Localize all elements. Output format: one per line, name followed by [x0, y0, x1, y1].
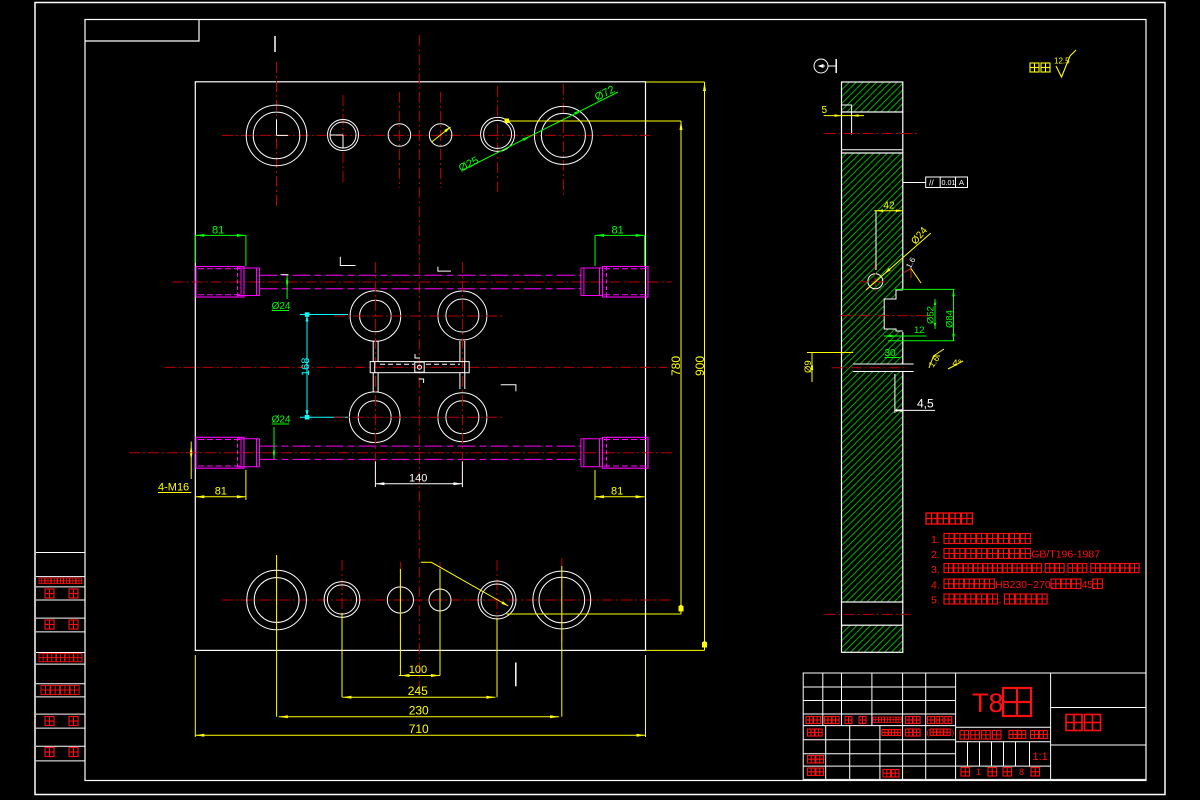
dim 42 line	[874, 210, 903, 212]
svg-text:140: 140	[409, 473, 427, 485]
svg-text:81: 81	[215, 486, 227, 498]
svg-text:5: 5	[822, 105, 828, 116]
dim line 900	[704, 82, 706, 650]
dim line 245	[343, 696, 496, 698]
section mark above plate	[274, 36, 276, 52]
hole B6 large	[533, 571, 591, 629]
hole A2 threaded	[328, 120, 359, 151]
upper guide pillar assembly	[196, 267, 244, 298]
svg-text:2.: 2.	[931, 549, 940, 561]
svg-text:.: .	[1065, 564, 1068, 576]
svg-text:HB230~270,: HB230~270,	[995, 579, 1054, 591]
pocket outline	[884, 290, 903, 331]
hole B1 large	[247, 570, 307, 630]
tb label biaozhunhua	[882, 730, 888, 736]
erase right edge at sprue slot	[902, 365, 904, 371]
svg-text:81: 81	[612, 225, 624, 237]
ext lines 4.5	[894, 374, 896, 413]
ext lines 81 top-right	[594, 235, 596, 266]
svg-text:900: 900	[693, 356, 707, 376]
left table label miao-tu	[45, 589, 54, 598]
section centerline top row	[825, 133, 920, 135]
hole A5 stepped	[481, 117, 515, 151]
dim 5 line	[824, 115, 864, 117]
sprue slot lines	[853, 363, 913, 365]
svg-text:230: 230	[409, 703, 429, 717]
left table label ri-qi	[45, 748, 54, 757]
left table label miao-jiao	[45, 620, 54, 629]
tb label fenqu	[845, 717, 852, 724]
dim line 710	[195, 734, 645, 736]
plate horizontal centerline	[165, 366, 668, 368]
dim 42 ext line	[875, 211, 877, 270]
ext line 900 bottom	[646, 649, 705, 651]
ext line 900 top	[646, 81, 705, 83]
top row hole centerline	[562, 84, 564, 198]
svg-text:Ø84: Ø84	[945, 310, 956, 328]
finish mark 1.6 white	[903, 269, 911, 279]
ext line 780 top	[507, 120, 681, 122]
sprue square	[415, 362, 424, 372]
svg-text:(: (	[927, 729, 930, 738]
tb sheets	[961, 768, 970, 777]
cavity circle BR	[438, 393, 487, 442]
svg-text:.: .	[1088, 564, 1091, 576]
ext lines 168	[300, 314, 348, 316]
left table label ditu-zonghao	[41, 686, 50, 695]
cavity centerline vertical left	[374, 262, 376, 478]
arrowhead on A6 right	[574, 110, 583, 115]
break mark below sprue	[419, 379, 424, 383]
sprue slot black region	[853, 365, 903, 371]
dim 4.5	[895, 409, 935, 411]
svg-text:.: .	[1042, 564, 1045, 576]
hole B5	[478, 581, 516, 619]
tb part name xingqiang	[1066, 715, 1082, 731]
dim line 230	[279, 716, 559, 718]
ext line 81 bottom-right	[594, 470, 596, 500]
svg-text:A: A	[959, 178, 964, 187]
lower guide bar centerline	[129, 452, 672, 454]
svg-text:12: 12	[914, 325, 925, 336]
svg-text:4-M16: 4-M16	[158, 482, 189, 494]
dim O52	[934, 299, 936, 329]
hole A6 large	[534, 106, 592, 164]
top row hole centerline	[276, 62, 278, 208]
svg-text:Ø52: Ø52	[926, 306, 937, 324]
leader 4-M16	[190, 442, 192, 480]
upper guide bar centerline	[173, 281, 672, 283]
top hole row centerline	[222, 134, 650, 136]
bottom row hole centerline	[561, 558, 563, 642]
plate outline rectangle	[195, 82, 645, 651]
hole B3 small	[387, 587, 413, 613]
svg-text:Ø9: Ø9	[803, 360, 814, 373]
svg-text:,: ,	[999, 594, 1002, 606]
hole A3 small	[388, 124, 411, 147]
runner gate TL	[372, 341, 374, 362]
hole B2	[324, 582, 360, 618]
svg-text:): )	[952, 729, 955, 738]
tolerance frame box	[926, 177, 968, 188]
dim line 81 top-left	[195, 234, 246, 236]
section main block hatched	[842, 153, 903, 602]
tb label qianming	[906, 717, 913, 724]
bottom row hole centerline	[399, 562, 401, 638]
hole A4 small	[429, 124, 452, 147]
cavity circle BL	[349, 392, 400, 443]
top row hole centerline	[440, 92, 442, 188]
dim O9	[811, 352, 813, 382]
ext lines 81 bottom-left	[194, 655, 196, 737]
ext line col B3	[399, 569, 401, 676]
title block grid	[803, 673, 1146, 779]
svg-text:710: 710	[409, 722, 429, 736]
top row hole centerline	[342, 95, 344, 185]
dim O84	[895, 288, 955, 290]
ext line col B4	[439, 569, 441, 676]
break mark above sprue	[415, 354, 420, 358]
dim O24 upper	[286, 274, 288, 299]
tb label gongyi	[808, 768, 816, 776]
svg-text:81: 81	[212, 225, 224, 237]
svg-text:8: 8	[1019, 767, 1024, 777]
svg-text:100: 100	[409, 664, 427, 676]
tb label qianming2	[906, 729, 913, 736]
erase right edge at pocket mouth	[902, 289, 904, 332]
dim line 81 bottom-right	[595, 496, 645, 498]
section top block hatched	[842, 82, 903, 112]
section side edges through gaps	[841, 112, 843, 153]
svg-text:81: 81	[611, 486, 623, 498]
hole B4 small	[429, 589, 451, 611]
hole A1 large threaded	[246, 105, 307, 166]
dim line 140	[375, 483, 462, 485]
tb label biaoji	[806, 717, 813, 724]
top-left binding notch	[85, 20, 199, 41]
svg-text:45: 45	[1082, 579, 1094, 591]
tb label jieduanbiaoji	[960, 731, 969, 740]
section centerline bottom row	[825, 613, 911, 615]
cross hole centerlines	[874, 262, 876, 295]
dim line 81 top-right	[595, 234, 645, 236]
main runner bar	[370, 362, 469, 373]
bottom row hole centerline	[276, 556, 278, 642]
svg-text:42: 42	[883, 201, 895, 212]
bottom row hole centerline	[439, 562, 441, 638]
chamfer leader bottom yellow	[421, 562, 509, 606]
cavity circle TR	[438, 291, 487, 340]
ext lines 81 top-left	[194, 235, 196, 263]
left margin table grid	[36, 553, 85, 761]
svg-text:5.: 5.	[931, 595, 940, 607]
dim line 168 cyan	[306, 315, 308, 418]
dim line 81 bottom-left	[195, 496, 246, 498]
finish 1.6 yellow	[929, 356, 940, 368]
cavity circle TL	[350, 291, 401, 342]
label qiyu	[1030, 63, 1039, 72]
runner gate TR	[459, 341, 461, 362]
plate vertical centerline	[418, 35, 420, 686]
dim line 780	[680, 121, 682, 614]
sprue centerline red	[832, 367, 908, 369]
pocket centerline red	[840, 315, 935, 317]
ext line plate right bottom	[645, 655, 647, 737]
break mark upper left	[340, 257, 355, 266]
left table label jieyong	[39, 578, 45, 584]
tb label chushu	[825, 717, 832, 724]
hole A4 leader yellow	[432, 127, 451, 142]
cavity centerline horizontal lower	[334, 416, 505, 418]
bottom row hole centerline	[496, 560, 498, 640]
tb material gang	[1003, 688, 1031, 716]
cavity centerline vertical right	[461, 262, 463, 478]
ext line col B5	[496, 618, 498, 697]
runner gate BL	[372, 373, 374, 393]
bottom row hole centerline	[341, 560, 343, 640]
svg-text:245: 245	[408, 684, 428, 698]
cross hole circle	[868, 274, 883, 289]
tb label shenhe	[808, 756, 816, 764]
pocket cut black region	[884, 290, 903, 331]
left table label qian-zi	[45, 717, 54, 726]
break mark upper mid	[438, 267, 451, 271]
tech req title	[926, 513, 937, 524]
left table label jiu-ditu-zonghao	[39, 654, 47, 662]
projection symbol	[814, 59, 828, 73]
parting line pair	[842, 149, 903, 151]
dia leader line O25-O72	[463, 92, 618, 170]
ext lines 140	[374, 462, 376, 488]
tb label zhongliang	[1009, 731, 1017, 739]
break mark lower right	[501, 385, 516, 392]
svg-text://: //	[929, 178, 934, 188]
dim 12	[884, 335, 927, 337]
cavity centerline horizontal upper	[334, 315, 505, 317]
svg-text:1: 1	[976, 767, 981, 777]
top row hole centerline	[398, 92, 400, 188]
tb label nianyueri	[928, 717, 935, 724]
tolerance frame leader	[903, 182, 926, 184]
O24 leader	[866, 233, 931, 290]
svg-text:GB/T196-1987: GB/T196-1987	[1031, 549, 1100, 561]
svg-text:1.: 1.	[931, 534, 940, 546]
dim line 100	[399, 675, 440, 677]
svg-text:0.01: 0.01	[942, 178, 956, 187]
svg-text:T8: T8	[972, 688, 1004, 718]
bottom hole row centerline	[222, 599, 672, 601]
section bottom block hatched	[842, 625, 903, 652]
tb label genggai	[873, 717, 878, 722]
top-left step notch	[842, 105, 852, 112]
top row hole centerline	[497, 86, 499, 192]
ext line col B2	[341, 613, 343, 697]
tb label bili	[1031, 731, 1039, 739]
svg-text:168: 168	[300, 358, 312, 376]
lower guide pillar assembly	[196, 437, 244, 468]
svg-text:4°: 4°	[952, 358, 961, 369]
dim O24 lower	[273, 427, 275, 459]
svg-text:1:1: 1:1	[1033, 751, 1048, 763]
section mark below plate	[515, 663, 517, 687]
tb label sheji	[808, 729, 815, 736]
svg-text:4.: 4.	[931, 580, 940, 592]
ext line col B6	[561, 566, 563, 717]
svg-text:3.: 3.	[931, 564, 940, 576]
svg-text:780: 780	[669, 356, 683, 376]
svg-text:4,5: 4,5	[917, 397, 934, 411]
tb label pizhun	[883, 770, 891, 778]
ext line 780 bottom	[507, 613, 682, 615]
runner gate BR	[459, 373, 461, 389]
arrowhead on A6 left	[522, 136, 531, 141]
ext line col B1	[276, 555, 278, 717]
